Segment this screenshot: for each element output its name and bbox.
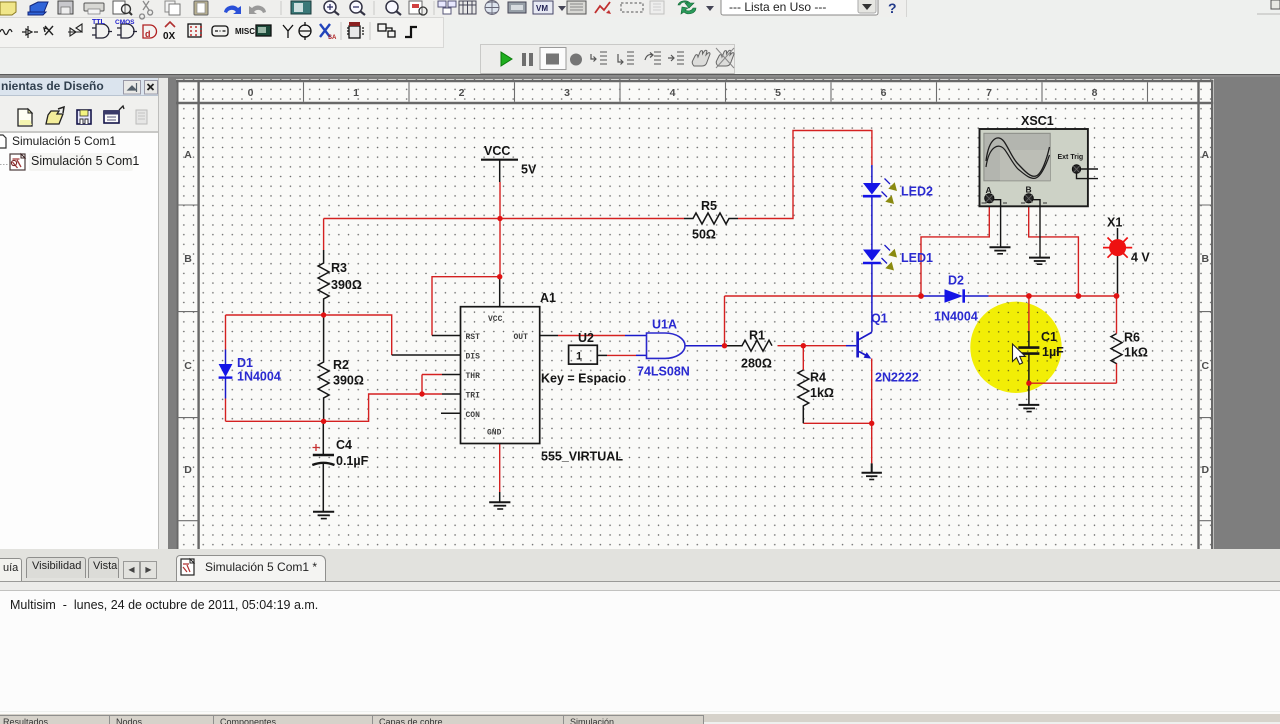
ground scope B <box>1029 258 1050 265</box>
svg-text:VM: VM <box>536 4 548 13</box>
wire D2 cathode to C1 R6 X1 <box>989 295 1117 297</box>
svg-text:TTL: TTL <box>92 19 106 26</box>
ground below Q1 emitter <box>862 463 882 479</box>
wire emitter down <box>871 359 873 464</box>
ground below C4 <box>313 512 334 519</box>
svg-text:C4: C4 <box>336 438 352 452</box>
svg-text:50Ω: 50Ω <box>692 228 716 242</box>
svg-text:R1: R1 <box>749 329 765 343</box>
svg-text:MISC: MISC <box>235 27 255 36</box>
svg-text:LED2: LED2 <box>901 185 933 199</box>
pin leads of A1 <box>392 277 558 503</box>
wire R6 bottom net <box>1029 363 1117 383</box>
svg-text:1kΩ: 1kΩ <box>1124 346 1148 360</box>
wire RST net <box>432 277 500 336</box>
wire D1 branch bottom <box>225 399 227 422</box>
svg-text:Key = Espacio: Key = Espacio <box>541 372 626 386</box>
svg-text:d: d <box>145 29 151 39</box>
highlight circle on C1 <box>970 302 1061 393</box>
svg-text:390Ω: 390Ω <box>331 278 362 292</box>
resistor R5 <box>684 199 738 242</box>
tree icons <box>0 135 133 171</box>
svg-text:DIS: DIS <box>466 353 481 362</box>
lamp X1 <box>1103 216 1150 297</box>
wire DIS net <box>226 315 392 355</box>
wire R4 top lead <box>802 346 804 370</box>
svg-text:D2: D2 <box>948 274 964 288</box>
wire 555 GND drop <box>499 444 501 493</box>
lista en uso combobox <box>721 0 878 15</box>
svg-text:D1: D1 <box>237 356 253 370</box>
svg-text:390Ω: 390Ω <box>333 374 364 388</box>
svg-text:1kΩ: 1kΩ <box>810 386 834 400</box>
svg-text:VCC: VCC <box>488 315 503 324</box>
wire THR TRI net <box>226 375 443 422</box>
wire scope channel B <box>1029 203 1079 297</box>
svg-text:B: B <box>184 253 192 265</box>
wire R6 top lead <box>1116 296 1118 334</box>
capacitor C4 <box>312 421 368 511</box>
svg-text:U2: U2 <box>578 331 594 345</box>
power VCC symbol <box>481 160 518 182</box>
wire OUT net <box>558 335 625 337</box>
svg-text:B: B <box>1202 253 1210 265</box>
svg-text:1µF: 1µF <box>1042 345 1064 359</box>
svg-text:74LS08N: 74LS08N <box>637 365 690 379</box>
svg-text:VCC: VCC <box>484 144 510 158</box>
row 1 file icons (top-cropped) <box>0 1 311 19</box>
svg-text:LED1: LED1 <box>901 251 933 265</box>
svg-text:0.1µF: 0.1µF <box>336 454 369 468</box>
svg-text:C1: C1 <box>1041 330 1057 344</box>
svg-text:3: 3 <box>564 87 570 99</box>
svg-text:A1: A1 <box>540 291 556 305</box>
wire R1 to base <box>778 345 847 347</box>
svg-text:C: C <box>1202 360 1210 372</box>
svg-text:2N2222: 2N2222 <box>875 371 919 385</box>
wire VCC symbol drop <box>499 182 501 277</box>
svg-text:B: B <box>1026 185 1032 195</box>
svg-text:0Χ: 0Χ <box>163 31 176 42</box>
svg-text:U1A: U1A <box>652 318 677 332</box>
svg-text:1: 1 <box>353 87 359 99</box>
simulation toolbar <box>501 48 734 70</box>
svg-text:4 V: 4 V <box>1131 251 1150 265</box>
svg-text:SA: SA <box>328 35 337 41</box>
svg-text:6: 6 <box>881 87 887 99</box>
diode D2 <box>921 274 989 324</box>
diode D1 <box>219 350 281 399</box>
ground below A1 <box>489 502 510 509</box>
svg-text:THR: THR <box>466 372 481 381</box>
svg-text:8: 8 <box>1092 87 1098 99</box>
wire key to gate <box>607 354 636 356</box>
svg-text:--- Lista en Uso ---: --- Lista en Uso --- <box>729 0 826 14</box>
junction dots <box>321 216 1120 426</box>
svg-text:2: 2 <box>459 87 465 99</box>
svg-text:555_VIRTUAL: 555_VIRTUAL <box>541 450 623 464</box>
svg-text:R6: R6 <box>1124 331 1140 345</box>
svg-text:Ext Trig: Ext Trig <box>1058 154 1084 161</box>
svg-text:D: D <box>184 464 192 476</box>
resistor R1 <box>725 329 773 371</box>
svg-text:R5: R5 <box>701 199 717 213</box>
svg-text:Q1: Q1 <box>871 312 888 326</box>
svg-text:GND: GND <box>487 429 502 438</box>
row 1 zoom icons <box>324 0 1280 16</box>
svg-text:X1: X1 <box>1107 216 1122 230</box>
wire R4 bottom to emitter <box>803 422 871 424</box>
ground below C1 <box>1019 405 1040 412</box>
svg-text:0: 0 <box>248 87 254 99</box>
svg-text:D: D <box>1202 464 1210 476</box>
capacitor C1 <box>1018 330 1064 405</box>
svg-text:280Ω: 280Ω <box>741 357 772 371</box>
switch key U2 <box>541 331 626 386</box>
svg-text:1N4004: 1N4004 <box>934 310 978 324</box>
svg-text:RST: RST <box>466 333 481 342</box>
svg-text:R2: R2 <box>333 358 349 372</box>
svg-text:OUT: OUT <box>514 333 529 342</box>
title bar buttons <box>124 81 158 95</box>
svg-text:5: 5 <box>775 87 781 99</box>
svg-text:XSC1: XSC1 <box>1021 114 1054 128</box>
wire scope channel A <box>921 203 989 297</box>
LED LED1 <box>863 245 933 332</box>
oscilloscope XSC1 <box>980 114 1099 257</box>
wire gate output node up <box>725 296 922 346</box>
far right cropped mini toolbar <box>1271 0 1280 9</box>
svg-text:C: C <box>184 360 192 372</box>
svg-text:R4: R4 <box>810 371 826 385</box>
resistor R3 <box>318 250 362 315</box>
svg-text:CMOS: CMOS <box>115 19 135 26</box>
svg-text:R3: R3 <box>331 261 347 275</box>
row 2 component toolbar icons <box>0 19 417 42</box>
sheet ruler frame <box>176 80 1214 553</box>
resistor R2 <box>318 315 364 421</box>
wire VCC rail from R3 top to R5 and LED branch <box>324 131 872 219</box>
panel toolbar icons <box>18 106 147 126</box>
svg-text:CON: CON <box>466 411 481 420</box>
LED LED2 <box>863 165 933 250</box>
wire C1 top lead <box>1028 296 1030 331</box>
svg-text:1: 1 <box>576 351 582 363</box>
mouse cursor <box>1013 344 1026 364</box>
op-amp-style 555 timer U/A1 box <box>392 277 624 503</box>
svg-text:?: ? <box>888 0 897 16</box>
AND gate U1A <box>625 318 725 379</box>
svg-text:5V: 5V <box>521 163 537 177</box>
ground scope A <box>990 247 1011 254</box>
svg-text:A: A <box>184 149 192 161</box>
resistor R6 <box>1111 331 1148 364</box>
svg-text:A: A <box>1202 149 1210 161</box>
svg-text:TRI: TRI <box>466 392 481 401</box>
svg-text:4: 4 <box>670 87 676 99</box>
svg-text:7: 7 <box>986 87 992 99</box>
wire R3 top lead <box>323 219 325 251</box>
resistor R4 <box>798 370 834 423</box>
wire D1 branch top <box>225 315 227 350</box>
transistor Q1 <box>846 312 919 385</box>
svg-text:1N4004: 1N4004 <box>237 370 281 384</box>
